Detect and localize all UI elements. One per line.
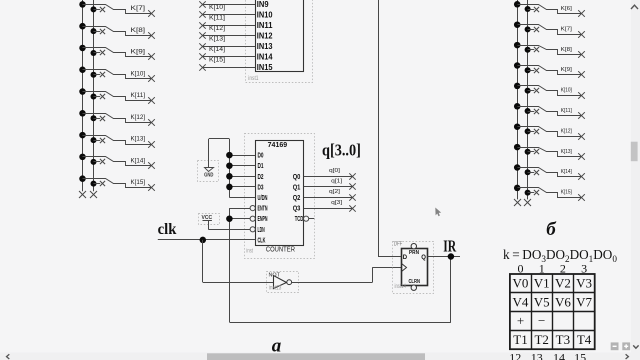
svg-text:Q3: Q3 [293, 206, 301, 213]
svg-text:Q: Q [421, 255, 426, 261]
svg-text:q[3]: q[3] [331, 200, 342, 206]
svg-text:V7: V7 [576, 294, 592, 309]
svg-text:K[9]: K[9] [131, 49, 146, 56]
svg-text:q[1]: q[1] [331, 179, 342, 185]
svg-text:15: 15 [574, 350, 586, 360]
svg-text:IN13: IN13 [257, 42, 273, 51]
svg-text:q[2]: q[2] [329, 189, 340, 195]
svg-text:TCD: TCD [295, 216, 304, 223]
svg-text:K[9]: K[9] [561, 67, 573, 73]
svg-text:IN15: IN15 [257, 63, 273, 72]
svg-text:inst14: inst14 [395, 283, 407, 290]
svg-text:V0: V0 [513, 276, 529, 291]
svg-text:LDN: LDN [258, 227, 265, 234]
svg-text:V2: V2 [555, 276, 571, 291]
svg-text:D2: D2 [258, 174, 264, 181]
svg-text:clk: clk [158, 221, 177, 238]
svg-text:Q0: Q0 [293, 174, 301, 181]
svg-text:COUNTER: COUNTER [266, 244, 295, 253]
svg-text:GND: GND [204, 173, 213, 179]
svg-text:K[10]: K[10] [209, 4, 225, 11]
svg-text:V5: V5 [534, 294, 550, 309]
svg-text:K[11]: K[11] [209, 14, 225, 21]
svg-text:CLRN: CLRN [408, 279, 420, 285]
svg-text:Q1: Q1 [293, 184, 301, 191]
svg-text:V4: V4 [513, 294, 529, 309]
svg-text:CLK: CLK [258, 237, 266, 244]
svg-text:ENPN: ENPN [258, 216, 268, 223]
svg-text:IN9: IN9 [257, 0, 269, 9]
svg-text:K[8]: K[8] [131, 27, 146, 34]
svg-text:K[10]: K[10] [561, 88, 573, 94]
svg-text:K[15]: K[15] [131, 179, 146, 186]
svg-text:13: 13 [531, 350, 543, 360]
svg-text:inst: inst [246, 247, 253, 254]
svg-text:ENTN: ENTN [258, 206, 268, 213]
svg-text:T4: T4 [577, 332, 592, 347]
svg-text:K[13]: K[13] [131, 136, 146, 143]
svg-text:q[3..0]: q[3..0] [322, 141, 361, 160]
svg-text:T1: T1 [513, 332, 527, 347]
svg-text:D: D [403, 255, 408, 261]
svg-text:q[0]: q[0] [329, 168, 340, 174]
svg-text:IN12: IN12 [257, 32, 273, 41]
svg-text:K[14]: K[14] [131, 157, 146, 164]
svg-text:IN11: IN11 [257, 21, 273, 30]
svg-text:Q2: Q2 [293, 195, 301, 202]
svg-text:T3: T3 [556, 332, 570, 347]
svg-text:K[8]: K[8] [561, 47, 573, 53]
svg-text:K[14]: K[14] [209, 46, 225, 53]
svg-text:V3: V3 [576, 276, 592, 291]
svg-text:+: + [517, 313, 524, 328]
svg-text:K[11]: K[11] [561, 108, 573, 114]
svg-text:IN10: IN10 [257, 11, 273, 20]
svg-text:D1: D1 [258, 163, 264, 170]
svg-text:V1: V1 [534, 276, 550, 291]
svg-text:DFF: DFF [394, 241, 403, 247]
svg-text:K[6]: K[6] [561, 6, 573, 12]
svg-text:−: − [538, 313, 545, 328]
svg-text:K[11]: K[11] [131, 92, 146, 99]
svg-text:U/DN: U/DN [258, 195, 268, 202]
svg-text:inst1: inst1 [248, 75, 259, 82]
svg-text:14: 14 [553, 350, 565, 360]
svg-text:V6: V6 [555, 294, 571, 309]
svg-text:K[15]: K[15] [209, 56, 225, 63]
svg-text:IN14: IN14 [257, 53, 273, 62]
svg-text:K[10]: K[10] [131, 70, 146, 77]
svg-text:12: 12 [509, 350, 521, 360]
svg-text:б: б [546, 219, 557, 240]
svg-text:T2: T2 [534, 332, 548, 347]
svg-text:PRN: PRN [409, 250, 419, 256]
svg-text:K[15]: K[15] [561, 190, 573, 196]
svg-text:IR: IR [443, 237, 457, 256]
svg-text:K[13]: K[13] [209, 35, 225, 42]
svg-text:K[14]: K[14] [561, 169, 573, 175]
svg-text:inst13: inst13 [269, 284, 282, 291]
svg-text:K[7]: K[7] [561, 26, 573, 32]
svg-text:K[13]: K[13] [561, 149, 573, 155]
svg-text:74169: 74169 [268, 140, 288, 149]
svg-text:K[7]: K[7] [131, 5, 146, 12]
svg-text:K[12]: K[12] [209, 25, 225, 32]
svg-text:K[12]: K[12] [561, 128, 573, 134]
svg-text:D0: D0 [258, 153, 264, 160]
svg-text:K[12]: K[12] [131, 114, 146, 121]
svg-text:D3: D3 [258, 184, 264, 191]
